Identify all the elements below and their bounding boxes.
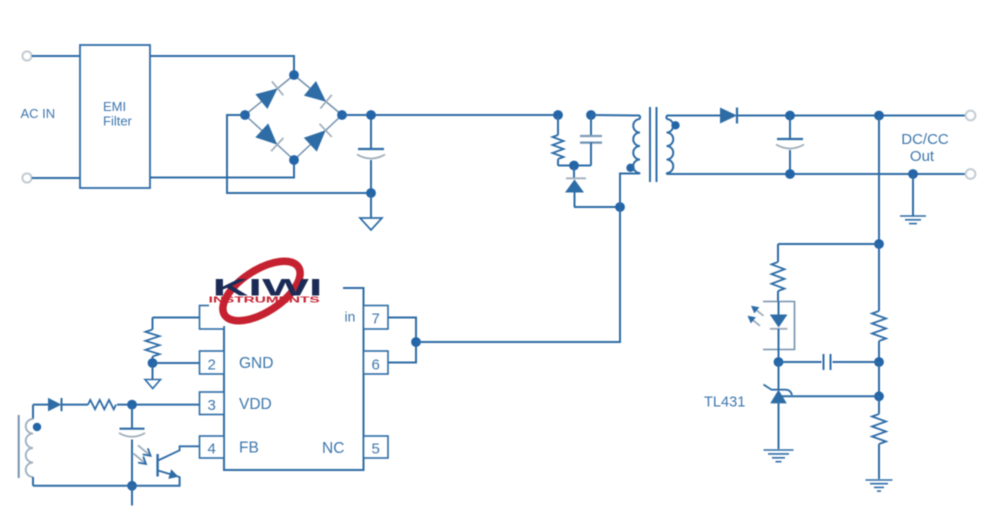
wire (117, 404, 200, 406)
wire (388, 318, 416, 363)
diode D3 (48, 398, 62, 412)
svg-text:VDD: VDD (239, 396, 272, 413)
wire (667, 115, 721, 117)
optocoupler LED frame (763, 302, 795, 350)
node (874, 111, 884, 121)
ground output (912, 174, 914, 216)
node (785, 169, 795, 179)
wire (342, 114, 558, 116)
svg-text:FB: FB (239, 440, 259, 457)
wire (33, 485, 181, 487)
diode D2 (720, 108, 737, 124)
wire (574, 206, 620, 208)
logo ellipse (213, 249, 310, 332)
aux winding L2 (32, 405, 34, 419)
wire (558, 165, 574, 167)
node DC- (366, 188, 376, 198)
node (553, 110, 563, 120)
svg-text:DC/CC: DC/CC (901, 131, 949, 148)
logo background (209, 256, 343, 326)
node bridge top (289, 70, 299, 80)
pin 4 box (200, 436, 225, 458)
svg-text:in: in (345, 309, 356, 325)
svg-text:2: 2 (208, 357, 216, 374)
node (874, 391, 884, 401)
svg-text:Out: Out (910, 148, 935, 165)
node (874, 239, 884, 249)
wire (32, 55, 80, 57)
node DC+ (366, 110, 376, 120)
EMI filter block (80, 45, 150, 188)
pin box top-left (200, 306, 225, 330)
pin 6 box (364, 351, 389, 374)
svg-text:EMI: EMI (103, 99, 126, 114)
wire (153, 362, 200, 364)
IC U1 body (224, 288, 364, 470)
capacitor C1 (370, 115, 372, 149)
node (874, 357, 884, 367)
resistor R5 (878, 396, 880, 414)
wire (150, 160, 294, 178)
pin 2 box (200, 351, 225, 374)
transformer secondary winding (667, 119, 674, 173)
wire (131, 486, 133, 506)
resistor R2 (152, 318, 154, 330)
wire (620, 174, 640, 208)
wire (33, 404, 48, 406)
node (785, 111, 795, 121)
phototransistor Q1 base (156, 454, 158, 477)
node (774, 357, 784, 367)
svg-text:5: 5 (372, 441, 380, 458)
svg-text:6: 6 (372, 357, 380, 374)
diode D4 (573, 166, 575, 180)
shunt regulator TL431 U2 (778, 362, 780, 390)
LED D5 (778, 302, 780, 315)
pin 7 box (364, 306, 389, 330)
node (127, 400, 137, 410)
light arrow (134, 454, 147, 465)
svg-text:AC IN: AC IN (21, 106, 56, 121)
capacitor C3 (131, 405, 133, 429)
LED light arrow (755, 309, 764, 316)
light arrow (138, 445, 151, 456)
ground (866, 479, 893, 481)
aux core (18, 415, 20, 478)
wire (153, 317, 200, 319)
wire (227, 115, 371, 193)
wire (32, 177, 80, 179)
svg-text:3: 3 (208, 397, 216, 414)
node (411, 337, 421, 347)
node bridge left (240, 110, 250, 120)
phototransistor emitter (158, 471, 180, 478)
ground (370, 193, 372, 218)
wire (878, 362, 880, 396)
bridge diode left-bottom (255, 123, 277, 144)
resistor R1 (557, 115, 559, 135)
node primary polarity dot (626, 164, 634, 172)
wire (666, 173, 668, 174)
node (586, 110, 596, 120)
ground (152, 363, 154, 380)
resistor R4 (878, 244, 880, 311)
bridge diode top-right (304, 81, 326, 102)
wire (179, 477, 181, 486)
node snubber (569, 161, 579, 171)
wire (574, 165, 591, 167)
transformer primary winding (639, 116, 641, 120)
svg-text:Filter: Filter (103, 114, 133, 129)
capacitor C4 (779, 361, 822, 363)
terminal DC out plus (966, 111, 976, 121)
terminal AC bottom (22, 173, 31, 182)
bridge rectifier BR1 frame (245, 75, 294, 115)
node bridge right (337, 110, 347, 120)
svg-text:4: 4 (208, 441, 216, 458)
bridge diode bottom-right (304, 130, 326, 151)
svg-text:NC: NC (322, 440, 344, 457)
terminal DC out minus (966, 169, 976, 179)
svg-text:INSTRUMENTS: INSTRUMENTS (209, 295, 321, 304)
wire (591, 114, 640, 117)
wire (878, 116, 880, 245)
LED light arrow (752, 319, 761, 326)
node aux polarity dot (33, 423, 41, 431)
bridge diode left-top (255, 88, 277, 109)
capacitor C5 (590, 115, 592, 136)
svg-text:GND: GND (239, 355, 273, 372)
wire (150, 56, 294, 75)
resistor R3 (777, 244, 779, 262)
wire (416, 207, 620, 342)
wire (778, 243, 879, 245)
node (908, 169, 918, 179)
node (127, 481, 137, 491)
capacitor C2 (789, 116, 791, 140)
pin 3 box (200, 392, 225, 415)
node (148, 358, 158, 368)
pin 5 box (364, 436, 389, 458)
node (615, 202, 625, 212)
svg-text:7: 7 (372, 311, 380, 328)
resistor R6 (88, 400, 116, 409)
terminal AC top (22, 51, 31, 60)
phototransistor collector (158, 446, 200, 460)
wire TL431 ref (781, 395, 879, 397)
wire (639, 172, 641, 175)
node secondary polarity dot (671, 121, 679, 129)
svg-text:TL431: TL431 (704, 395, 745, 411)
ground TL431 (764, 449, 794, 451)
transformer core (649, 107, 651, 182)
node bridge bottom (289, 155, 299, 165)
